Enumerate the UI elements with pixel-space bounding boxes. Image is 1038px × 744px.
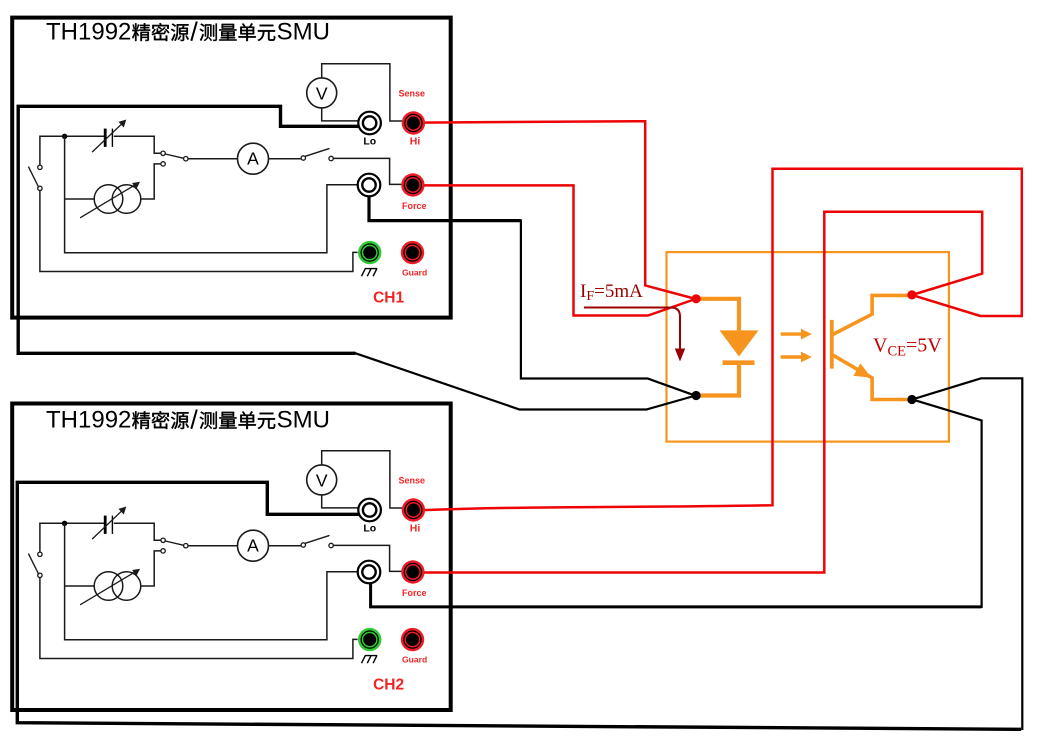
variable capacitor C2 arrow [92,508,125,540]
wire CH2 Hi to collector [420,169,1022,511]
optocoupler package box U1 [667,252,949,442]
svg-text:Lo: Lo [363,135,376,147]
wire ammeter to output switch [269,545,302,547]
svg-text:VCE=5V: VCE=5V [873,335,942,360]
node dot channel 2 [62,521,67,526]
terminal Hi channel 1 [402,111,425,134]
svg-text:CH2: CH2 [373,676,404,693]
node dot channel 1 [62,134,67,139]
svg-text:TH1992: TH1992 [46,19,131,46]
wire source right to selector [141,551,161,586]
svg-text:Hi: Hi [410,136,421,148]
terminal Guard channel 1 [401,241,424,264]
wire CH2 Lo to emitter (thick run) [17,482,1021,729]
wire output switch to Force terminal [333,158,402,184]
wire CH1 Force-Lo to LED cathode (thin run) [521,220,694,396]
svg-text:Guard: Guard [402,268,427,278]
output switch contacts channel 2 [301,543,333,548]
selector switch arm [165,154,183,158]
svg-text:SMU: SMU [277,19,330,46]
terminal Hi channel 2 [402,498,425,521]
terminal Force-Lo ring channel 1 [358,174,381,197]
wire node down-left rail [65,136,357,252]
wire source left to rail [65,198,95,200]
IF current leader line and arrow [584,308,680,349]
wire CH1 Lo to LED cathode (diagonal run) [355,353,695,410]
terminal Force-Lo ring channel 2 [358,561,381,584]
phototransistor Q1 base bar [830,320,834,369]
svg-text:Sense: Sense [399,89,426,99]
wire CH2 Force-Lo to emitter (thin run) [914,400,982,608]
svg-text:Guard: Guard [402,655,427,665]
terminal Guard channel 2 [401,628,424,651]
svg-text:Force: Force [402,201,427,211]
wire capacitor to selector [114,136,161,153]
wire CH2 Force to collector [420,212,982,573]
node collector [907,290,916,299]
light arrow 1 [781,332,802,335]
wire S1a bottom to green terminal [40,191,358,272]
switch S1a (left) contacts [38,165,42,190]
svg-text:Sense: Sense [399,476,426,486]
variable capacitor C1 plates [105,129,112,147]
svg-text:Hi: Hi [410,523,421,535]
LED D1 cathode bar [723,360,755,365]
LED cathode wire [696,361,739,396]
wire CH1 Force to LED anode [420,185,694,315]
terminal Force channel 1 [401,173,424,196]
svg-text:TH1992: TH1992 [46,407,131,434]
SMU CH2 enclosure box [12,404,451,711]
ammeter A2 [238,530,269,561]
current source I1 arrow [80,183,139,218]
ground symbol channel 1 [362,269,378,277]
output switch arm [305,535,329,543]
terminal Force channel 2 [401,560,424,583]
wire selector to ammeter [188,545,238,547]
SMU CH1 enclosure box [12,18,451,318]
wire capacitor to selector [114,523,161,540]
phototransistor Q1 collector [833,295,908,334]
node LED cathode [692,391,701,400]
current source I2 arrow [80,570,139,605]
terminal ground (green) channel 2 [358,628,381,651]
wire S2a top contact to node rail [40,523,104,552]
wire node down-left rail [65,523,357,639]
phototransistor Q1 emitter [833,355,908,399]
wire output switch to Force terminal [333,545,402,571]
wire selector to ammeter [188,158,238,160]
svg-text:Force: Force [402,588,427,598]
svg-text:V: V [316,470,328,490]
wire source right to selector [141,164,161,199]
wire CH1 Hi to LED anode [420,121,694,298]
voltmeter V1 [307,78,337,108]
LED anode wire [696,299,739,331]
terminal Lo channel 1 [358,112,381,135]
wire S1a top contact to node rail [40,136,104,165]
variable capacitor C2 plates [105,516,112,534]
ground symbol channel 2 [362,656,378,664]
wire CH2 Lo to emitter (thin run) [914,378,1023,730]
wire voltmeter top to Hi (sense loop) [322,451,402,508]
wire voltmeter top to Hi (sense loop) [322,64,402,121]
terminal ground (green) channel 1 [358,241,381,264]
ammeter A1 [238,143,269,174]
current source I1 circles [94,185,141,214]
switch S2a arm [28,554,38,575]
wire CH1 Lo to LED cathode (thick run) [18,106,360,353]
node emitter [907,395,916,404]
wire S2a bottom to green terminal [40,578,358,659]
variable capacitor C1 arrow [92,121,125,153]
svg-text:V: V [316,83,328,103]
selector switch contacts channel 2 [161,538,188,553]
svg-text:A: A [247,536,259,556]
svg-text:A: A [247,149,259,169]
selector switch arm [165,541,183,545]
svg-text:Lo: Lo [363,522,376,534]
terminal Lo channel 2 [358,499,381,522]
wire source left to rail [65,585,95,587]
wire voltmeter bottom to Lo [322,108,358,121]
wire CH1 Force-Lo to LED cathode (thick run) [369,195,521,221]
svg-text:SMU: SMU [277,407,330,434]
selector switch contacts channel 1 [161,151,188,166]
node LED anode [692,294,701,303]
output switch contacts channel 1 [301,156,333,161]
LED D1 triangle [720,330,759,356]
phototransistor Q1 emitter arrowhead [853,363,871,377]
voltmeter V2 [307,465,337,495]
svg-text:CH1: CH1 [373,289,404,306]
wire voltmeter bottom to Lo [322,495,358,508]
light arrow 2 [781,355,802,358]
switch S2a (left) contacts [38,552,42,577]
wire ammeter to output switch [269,158,302,160]
current source I2 circles [94,572,141,601]
output switch arm [305,148,329,156]
switch S1a arm [28,167,38,188]
wire CH2 Force-Lo to emitter (thick run) [371,582,982,607]
